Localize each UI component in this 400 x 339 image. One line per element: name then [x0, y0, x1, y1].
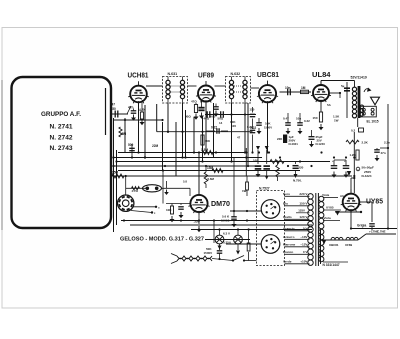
svg-text:~13V: ~13V: [300, 235, 308, 239]
svg-text:22K: 22K: [277, 137, 283, 141]
svg-text:Blu: Blu: [283, 202, 288, 206]
svg-text:10K: 10K: [205, 139, 211, 143]
svg-text:DM70: DM70: [211, 199, 230, 208]
svg-text:UF89: UF89: [345, 243, 352, 247]
svg-text:10n: 10n: [285, 86, 291, 90]
svg-text:47n: 47n: [381, 151, 386, 155]
svg-text:250V: 250V: [364, 170, 372, 174]
svg-text:Arancio: Arancio: [283, 227, 295, 231]
svg-text:100: 100: [253, 159, 258, 163]
svg-text:6.3 V: 6.3 V: [223, 231, 230, 235]
svg-text:UF89: UF89: [198, 70, 214, 79]
svg-text:UBC81: UBC81: [257, 70, 279, 79]
svg-text:UCH81: UCH81: [128, 70, 149, 79]
svg-text:N.4021: N.4021: [289, 142, 299, 146]
svg-text:.220: .220: [298, 166, 304, 170]
svg-text:UY85: UY85: [326, 206, 334, 210]
svg-text:+: +: [332, 159, 334, 163]
svg-text:N.750.: N.750.: [293, 179, 302, 183]
svg-text:150 V: 150 V: [299, 202, 308, 206]
svg-text:47: 47: [237, 136, 241, 140]
svg-text:150: 150: [313, 116, 318, 120]
svg-text:~12V: ~12V: [300, 243, 308, 247]
svg-text:+C7NE: +C7NE: [369, 230, 378, 234]
svg-text:0.22: 0.22: [250, 126, 256, 130]
svg-text:10K: 10K: [166, 208, 172, 212]
svg-text:Azzurro: Azzurro: [283, 235, 295, 239]
svg-text:1.2K: 1.2K: [350, 153, 357, 157]
svg-text:5µ: 5µ: [341, 84, 345, 88]
svg-text:4.7Ω: 4.7Ω: [132, 189, 139, 193]
svg-text:10n: 10n: [296, 117, 301, 121]
svg-text:0.2: 0.2: [351, 129, 356, 133]
svg-text:N. 2741: N. 2741: [50, 124, 74, 131]
svg-text:500: 500: [128, 143, 134, 147]
svg-text:125V: 125V: [298, 209, 305, 213]
svg-text:+10V: +10V: [300, 260, 308, 264]
svg-text:0.25A: 0.25A: [223, 241, 232, 245]
svg-text:UL84: UL84: [312, 70, 331, 79]
svg-text:1500V: 1500V: [264, 126, 272, 130]
svg-text:N. 2743: N. 2743: [50, 145, 74, 152]
svg-text:Grigia: Grigia: [357, 224, 366, 228]
svg-text:1W: 1W: [334, 119, 339, 123]
svg-text:22M: 22M: [152, 144, 159, 148]
svg-text:N 331/1447: N 331/1447: [323, 263, 340, 267]
svg-text:0.22: 0.22: [304, 119, 310, 123]
svg-text:5.8: 5.8: [183, 180, 187, 184]
svg-text:GRUPPO A.F.: GRUPPO A.F.: [41, 111, 81, 118]
svg-text:F: F: [151, 187, 153, 191]
svg-text:47Ω: 47Ω: [191, 100, 197, 104]
svg-text:EL 1015: EL 1015: [367, 120, 379, 124]
svg-text:220 V: 220 V: [299, 192, 308, 196]
svg-text:UBC81: UBC81: [329, 243, 339, 247]
svg-text:Giallo: Giallo: [283, 215, 292, 219]
svg-text:2.2K: 2.2K: [362, 141, 369, 145]
svg-text:N.7527: N.7527: [259, 186, 270, 190]
svg-text:4.7K: 4.7K: [139, 108, 146, 112]
svg-text:2.2n: 2.2n: [384, 141, 390, 145]
svg-text:Nero: Nero: [283, 192, 290, 196]
svg-text:5.6M: 5.6M: [208, 177, 215, 181]
svg-text:A3: A3: [340, 194, 344, 198]
svg-text:N.632: N.632: [231, 72, 241, 76]
svg-text:50Ω: 50Ω: [210, 115, 216, 119]
svg-text:Viola: Viola: [322, 193, 329, 197]
svg-text:14: 14: [219, 121, 223, 125]
svg-text:N.4224: N.4224: [362, 174, 372, 178]
svg-text:UY85: UY85: [366, 197, 383, 206]
svg-text:Bianco: Bianco: [283, 250, 293, 254]
svg-text:N. 2742: N. 2742: [50, 135, 74, 142]
svg-text:40Ω: 40Ω: [204, 117, 210, 121]
svg-text:52V/11419: 52V/11419: [351, 76, 367, 80]
svg-text:1M: 1M: [301, 86, 306, 90]
svg-text:47n: 47n: [128, 106, 134, 110]
svg-text:50Ω: 50Ω: [218, 117, 224, 121]
svg-text:100: 100: [231, 124, 236, 128]
svg-text:47: 47: [112, 103, 116, 107]
svg-text:Verde: Verde: [283, 260, 292, 264]
svg-text:15M: 15M: [207, 166, 214, 170]
svg-text:120 V: 120 V: [299, 215, 308, 219]
svg-text:150: 150: [111, 107, 117, 111]
svg-text:N.631: N.631: [168, 72, 178, 76]
svg-text:1500Ω: 1500Ω: [221, 219, 230, 223]
svg-text:15M: 15M: [112, 170, 119, 174]
svg-text:Viola: Viola: [324, 216, 331, 220]
svg-text:1500V: 1500V: [204, 251, 213, 255]
svg-text:N.1240: N.1240: [316, 142, 326, 146]
svg-text:Marrone: Marrone: [283, 243, 295, 247]
svg-text:GELOSO - MODD. G.317 - G.327: GELOSO - MODD. G.317 - G.327: [120, 237, 204, 243]
svg-text:4.7K: 4.7K: [200, 100, 207, 104]
svg-text:15M: 15M: [120, 132, 127, 136]
